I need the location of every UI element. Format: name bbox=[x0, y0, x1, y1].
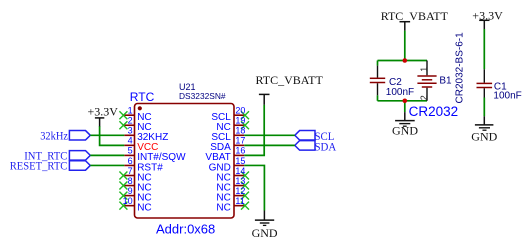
svg-text:GND: GND bbox=[392, 123, 418, 137]
svg-text:10: 10 bbox=[123, 196, 133, 206]
svg-text:20: 20 bbox=[235, 106, 245, 116]
svg-text:4: 4 bbox=[128, 136, 133, 146]
svg-text:32kHz: 32kHz bbox=[40, 128, 68, 142]
svg-text:RTC_VBATT: RTC_VBATT bbox=[256, 73, 324, 87]
svg-text:14: 14 bbox=[235, 166, 245, 176]
svg-text:2: 2 bbox=[419, 95, 429, 100]
svg-text:100nF: 100nF bbox=[386, 87, 414, 98]
svg-text:1: 1 bbox=[128, 106, 133, 116]
svg-text:RTC: RTC bbox=[130, 90, 155, 104]
svg-text:9: 9 bbox=[128, 186, 133, 196]
svg-text:CR2032-BS-6-1: CR2032-BS-6-1 bbox=[455, 32, 466, 104]
svg-text:B1: B1 bbox=[439, 76, 452, 87]
svg-text:6: 6 bbox=[128, 156, 133, 166]
svg-text:NC: NC bbox=[137, 202, 151, 213]
svg-text:DS3232SN#: DS3232SN# bbox=[179, 91, 226, 101]
svg-text:12: 12 bbox=[235, 186, 245, 196]
svg-text:18: 18 bbox=[235, 126, 245, 136]
svg-text:SDA: SDA bbox=[315, 139, 337, 153]
svg-text:NC: NC bbox=[216, 202, 230, 213]
svg-text:17: 17 bbox=[235, 136, 245, 146]
svg-text:5: 5 bbox=[128, 146, 133, 156]
svg-text:15: 15 bbox=[235, 156, 245, 166]
svg-text:GND: GND bbox=[471, 129, 497, 143]
svg-text:19: 19 bbox=[235, 116, 245, 126]
svg-text:RESET_RTC: RESET_RTC bbox=[10, 159, 68, 173]
svg-text:8: 8 bbox=[128, 176, 133, 186]
svg-text:GND: GND bbox=[252, 226, 278, 240]
svg-text:3: 3 bbox=[128, 126, 133, 136]
svg-text:+3.3V: +3.3V bbox=[472, 8, 503, 22]
svg-text:+3.3V: +3.3V bbox=[88, 105, 119, 119]
svg-text:16: 16 bbox=[235, 146, 245, 156]
svg-text:RTC_VBATT: RTC_VBATT bbox=[381, 9, 449, 23]
svg-text:7: 7 bbox=[128, 166, 133, 176]
svg-text:CR2032: CR2032 bbox=[409, 104, 459, 119]
svg-text:100nF: 100nF bbox=[493, 91, 521, 102]
svg-text:13: 13 bbox=[235, 176, 245, 186]
svg-text:2: 2 bbox=[128, 116, 133, 126]
svg-text:Addr:0x68: Addr:0x68 bbox=[156, 222, 215, 237]
svg-text:11: 11 bbox=[235, 196, 244, 206]
svg-text:1: 1 bbox=[419, 67, 429, 72]
